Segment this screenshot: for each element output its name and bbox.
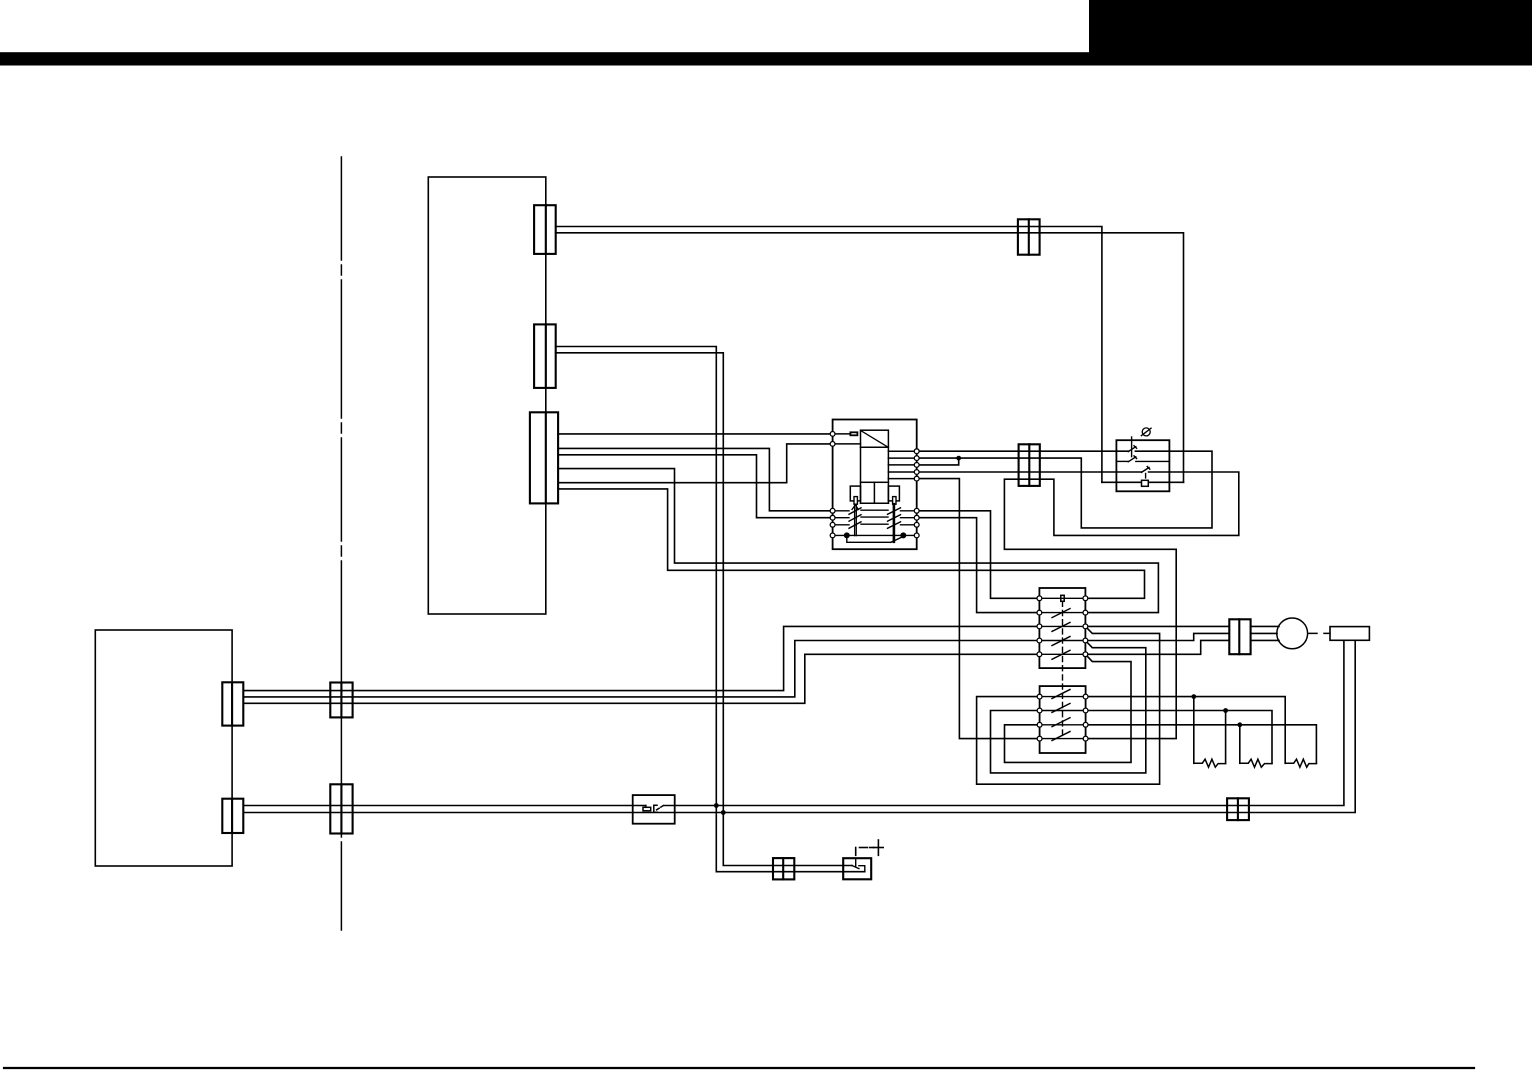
selector dashed shaft	[1062, 601, 1064, 739]
relay contact bar left	[852, 504, 858, 535]
wire R1 left leg	[1193, 697, 1195, 764]
battery terminal box B1	[843, 858, 871, 879]
wire relay lower row2 right to selector upper row2 left	[917, 518, 1040, 613]
motor M1	[1277, 618, 1308, 649]
connector C2 on U1	[534, 324, 556, 388]
wire pump ground 2	[243, 640, 1355, 812]
wire C C3 to relay lower row2	[558, 455, 833, 518]
connector C11 battery line	[773, 858, 794, 879]
battery contact internals	[852, 858, 865, 872]
resistor R1	[1194, 759, 1226, 767]
wire C2 pin2 down to battery contact	[556, 353, 852, 866]
lamp switch box S1	[1116, 440, 1169, 491]
wire D C3 to selector upper row2 right	[558, 469, 1158, 613]
relay coil stub A	[833, 433, 851, 435]
dashed link motor to resistor pack	[1309, 632, 1330, 634]
battery positive dashes	[856, 848, 874, 856]
resistor pack header	[1330, 627, 1369, 641]
wire relay out4 to switch3	[917, 471, 1142, 473]
relay output stubs	[888, 451, 916, 478]
wire selector row5 to motor pin3	[1085, 640, 1229, 654]
junction node N6	[1237, 722, 1242, 727]
wire selector row4 jog to lower row2 left	[991, 641, 1146, 773]
fuel pump unit box U2	[95, 630, 232, 866]
relay wing left	[850, 486, 860, 501]
wire relay lower row1 right to selector upper row1 left	[917, 511, 1040, 599]
wire motor pins to motor	[1251, 625, 1279, 627]
relay coil stub E	[833, 443, 861, 445]
resistor R2	[1240, 759, 1272, 767]
relay contact rows middle	[861, 510, 888, 524]
wire lower row2 right to resistor R2	[1086, 711, 1272, 764]
wire lower row1 right to resistor R3	[1086, 697, 1286, 764]
lamp switch internals	[1116, 437, 1169, 478]
inline switch box S4	[633, 795, 675, 824]
relay coil diagonal	[861, 430, 888, 447]
wire B C3 to relay lower row1	[558, 448, 833, 510]
relay plunger right	[893, 497, 896, 505]
relay common row	[833, 535, 917, 542]
bottom rule	[4, 1067, 1474, 1069]
wire F C3 to selector upper row1 right	[558, 489, 1144, 598]
connector C5 on U2 lower	[222, 799, 243, 833]
wire lower row3 right to resistor R3 right	[1086, 725, 1317, 764]
junction node N1	[956, 456, 961, 461]
centerline (dash-dot)	[340, 157, 342, 930]
wire C2 pin1 down to battery contact	[556, 347, 865, 872]
wire A C3 to relay coil top	[558, 433, 833, 435]
wire relay out5 to lower selector row4 left	[917, 479, 1040, 739]
relay common dots	[844, 532, 850, 538]
connector C6 bulkhead upper	[330, 683, 352, 718]
wire E C3 to relay coil bottom	[558, 444, 833, 483]
wire relay out3 branch to node	[917, 458, 959, 465]
selector top element	[1061, 595, 1064, 601]
wire R2 left leg	[1239, 725, 1241, 764]
lamp L1	[1141, 428, 1151, 436]
connector C10 motor	[1229, 619, 1250, 654]
wire selector row3 jog to lower row1 left	[977, 626, 1160, 784]
wire fuse link under lamp box	[1102, 481, 1184, 483]
wire relay out2 to node	[917, 457, 959, 459]
relay contact rows right	[888, 508, 917, 529]
junction node N4	[1191, 694, 1196, 699]
wire pump1 to selector upper row3 left	[243, 626, 1039, 690]
connector C12 lower right	[1227, 798, 1249, 820]
relay coil box	[861, 430, 889, 482]
battery plus symbol	[874, 840, 884, 855]
header black box top right	[1089, 0, 1532, 54]
resistor R3	[1285, 759, 1316, 767]
wire selector row3 to motor pin1	[1085, 625, 1229, 627]
relay contact bar right	[893, 504, 896, 542]
wire R1 right leg	[1225, 711, 1227, 764]
relay wing right	[888, 486, 899, 501]
wire pump3 to selector upper row5 left	[243, 654, 1039, 703]
inline switch S4 internals	[643, 805, 664, 812]
connector C7 bulkhead lower	[330, 784, 352, 833]
wire pump ground 1 left of switch	[243, 805, 646, 807]
wire C1 pin2 to lamp circuit	[556, 233, 1184, 482]
relay solenoid body	[861, 482, 889, 503]
relay terminals right	[914, 449, 919, 538]
selector switch lower S3	[1040, 686, 1086, 753]
wire selector row4 to motor pin2	[1085, 633, 1229, 640]
wire lamp switch loop back	[959, 451, 1212, 528]
wire C1 pin1 to lamp circuit	[556, 227, 1102, 483]
wire switch3 long loop to lower selector row4	[1004, 472, 1238, 739]
connector C1 on U1	[534, 205, 556, 254]
relay contact rows left	[833, 508, 861, 529]
selector upper rows	[1039, 598, 1085, 659]
connector C4 on U2 upper	[222, 682, 243, 725]
fuse square in lamp box	[1142, 480, 1149, 486]
relay coil divider	[861, 446, 889, 448]
wire relay out1 to lamp switch	[917, 450, 1129, 452]
relay terminals left	[830, 432, 835, 538]
relay box K1	[833, 420, 917, 550]
ECU main box U1	[428, 177, 546, 614]
selector lower terminals	[1037, 694, 1088, 741]
connector C9 inline mid	[1019, 444, 1040, 486]
relay coil terminal tab	[850, 432, 857, 435]
header black bar	[0, 52, 1532, 65]
junction node N5	[1223, 708, 1228, 713]
junction node N2	[714, 803, 719, 808]
wire selector row5 jog to lower row3 left	[1005, 654, 1132, 762]
selector lower rows	[1040, 690, 1086, 741]
selector upper terminals	[1037, 596, 1088, 657]
selector switch upper S2	[1039, 588, 1085, 668]
wire pump2 to selector upper row4 left	[243, 641, 1039, 697]
junction node N3	[721, 810, 726, 815]
wire pump ground 1 right of switch	[664, 640, 1344, 805]
relay plunger left	[854, 497, 857, 505]
connector C3 on U1	[530, 412, 558, 503]
connector C8 inline top	[1018, 219, 1040, 254]
